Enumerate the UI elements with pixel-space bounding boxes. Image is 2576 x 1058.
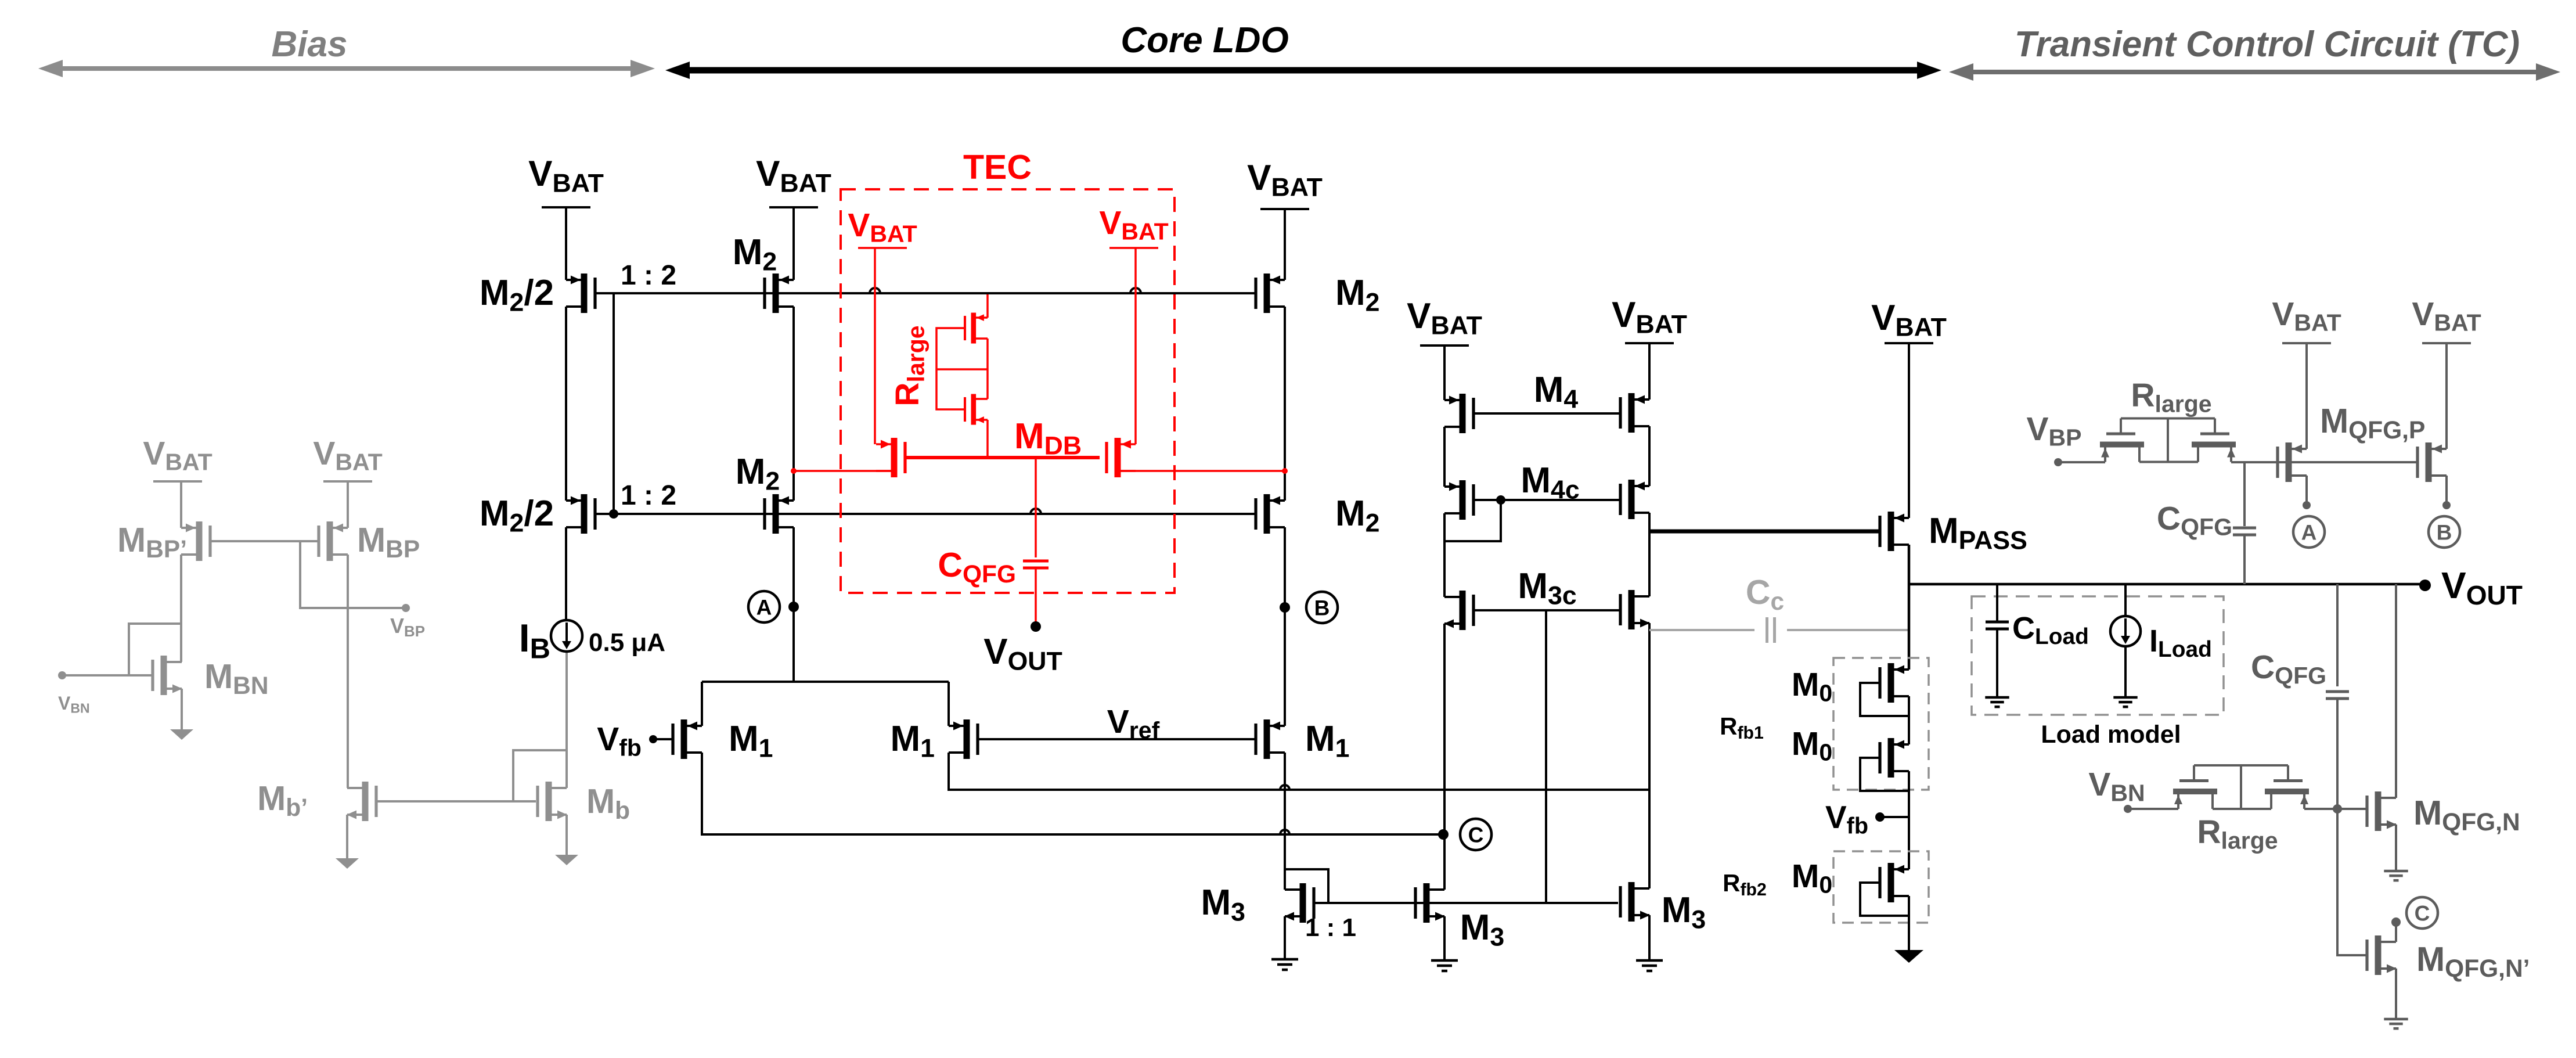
wire M1 tail rail: [702, 681, 949, 683]
pseudo-resistor Rlarge (TEC) upper PMOS: [971, 312, 977, 343]
transistor MBP' (PMOS): [196, 521, 203, 561]
transistor M3 left (NMOS diode): [1300, 883, 1306, 923]
ground (Rfb chain): [1894, 950, 1923, 963]
transistor M1 middle (PMOS): [964, 719, 970, 759]
wire M3 left to ground: [1284, 916, 1286, 958]
wire Rlarge chain: [986, 294, 989, 318]
capacitor CQFG (TEC): [1023, 560, 1049, 563]
wire MBN diode loop: [129, 624, 181, 675]
wire Rlarge to MQFG,N gate: [2304, 808, 2368, 810]
wire MBN source to ground: [181, 689, 183, 729]
junction floating gate N: [2333, 804, 2342, 814]
svg-text:1 : 2: 1 : 2: [621, 480, 676, 511]
ground (MQFG,N): [2384, 870, 2408, 873]
node A circle: [748, 591, 780, 622]
wire MDB left drain to M2 middle: [794, 470, 894, 472]
svg-text:B: B: [1314, 596, 1330, 620]
svg-text:A: A: [756, 595, 772, 619]
wire MDB right drain to M2 right: [1118, 470, 1284, 472]
hop crossings on rails: [870, 288, 880, 293]
svg-text:0.5 μA: 0.5 μA: [589, 628, 665, 657]
wire lower gate rail 1:2: [596, 513, 1256, 515]
node A junction: [788, 602, 799, 612]
svg-text:B: B: [2437, 520, 2452, 544]
Rfb1 dashed box: [1833, 658, 1929, 790]
transistor M2/2 upper (PMOS): [581, 274, 588, 313]
wire M2 right to node B: [1284, 527, 1286, 726]
node C junction: [1438, 829, 1449, 840]
node Vfb: [649, 735, 657, 743]
wire CQFG tap: [1035, 458, 1037, 557]
node B circle (TC): [2429, 516, 2460, 548]
transistor MPASS (PMOS): [1888, 512, 1894, 551]
current source ILoad: [2124, 584, 2127, 616]
wire MBP' gate to MBP gate: [210, 540, 319, 542]
wire Cc: [1649, 629, 1754, 631]
node VOUT terminal: [2419, 580, 2431, 591]
current source IB: [551, 620, 582, 652]
wire Mb' gate to Mb gate: [376, 800, 536, 803]
transistor MBP (PMOS): [327, 521, 333, 561]
transistor MQFG,P left (PMOS): [2286, 442, 2292, 482]
svg-text:C: C: [1468, 823, 1484, 847]
wire VBP tap: [300, 541, 406, 608]
VOUT rail: [1909, 583, 2425, 586]
ground (M3 middle): [1431, 959, 1458, 962]
Rfb2 dashed box: [1833, 851, 1929, 923]
transistor M0 (Rfb1 top): [1888, 663, 1894, 703]
ground (MBN): [170, 729, 193, 740]
wire MQFG,N' drain to C: [2395, 922, 2397, 942]
wire M3 gates riser: [1545, 610, 1547, 903]
transistor Mb' (NMOS): [362, 782, 369, 821]
wire MPASS gate drive: [1649, 530, 1879, 534]
transistor M1 right (PMOS): [1264, 719, 1270, 759]
wire Rfb2 to ground: [1908, 896, 1910, 950]
transistor M2 upper right (PMOS): [1264, 274, 1270, 313]
wire M3 right to ground: [1648, 915, 1651, 959]
capacitor CLoad: [1996, 584, 1998, 622]
transistor M3 middle (NMOS): [1424, 883, 1430, 923]
transistor Mb (NMOS): [546, 782, 552, 821]
wire M4c self-bias tap: [1444, 500, 1501, 541]
wire upper gate rail 1:2: [596, 292, 1256, 294]
wire M3 right drain up: [1648, 790, 1651, 888]
ground (Mb'): [336, 858, 359, 869]
svg-text:1 : 1: 1 : 1: [1305, 913, 1356, 942]
transistor MQFG,N' (NMOS): [2375, 935, 2382, 975]
transistor MQFG,P right (PMOS): [2426, 442, 2432, 482]
wire M1 middle drain rail: [949, 753, 1649, 790]
junction M2/2 gate: [609, 509, 618, 519]
transistor MDB right (PMOS): [1115, 438, 1121, 477]
wire M2/2 drain chain: [565, 307, 567, 501]
transistor MBN (NMOS): [161, 656, 167, 695]
transistor M3c left (NMOS): [1460, 591, 1466, 630]
ground (MQFG,N'): [2384, 1018, 2408, 1021]
pseudo-resistor Rlarge (TEC) lower PMOS: [971, 394, 977, 424]
transistor M2 lower middle (PMOS): [773, 494, 779, 534]
wire M4 right drain: [1648, 426, 1651, 486]
node VOUT (TEC): [1031, 621, 1041, 632]
capacitor Cc: [1766, 617, 1768, 643]
wire M1 right drain down: [1284, 753, 1286, 890]
wire M0 chain: [1908, 696, 1910, 744]
wire MQFG,P left drain to A: [2305, 476, 2308, 505]
wire M2 middle drain chain: [792, 307, 795, 501]
svg-text:Core LDO: Core LDO: [1121, 20, 1288, 60]
wire VBN to Rlarge: [2128, 808, 2178, 810]
wire M3 middle to ground: [1443, 916, 1446, 959]
transistor M0 (Rfb2): [1888, 863, 1894, 902]
wire MBP' drain down: [180, 555, 182, 662]
wire M1 left source: [701, 682, 703, 726]
wire Rlarge gate tie: [936, 328, 965, 409]
transistor M4 left (PMOS): [1460, 394, 1466, 433]
wire M3c right drain down: [1648, 623, 1651, 790]
wire MQFG,N source to ground: [2395, 825, 2397, 870]
wire Mb diode loop: [513, 750, 567, 801]
node VBP input: [2054, 458, 2062, 466]
wire M2/2 diode connection: [613, 293, 615, 514]
node VBP: [402, 604, 410, 612]
wire Mb drain up to IB: [565, 652, 568, 788]
Load model dashed box: [1972, 596, 2224, 715]
transistor M3c right (NMOS): [1629, 590, 1635, 629]
transistor M4c right (PMOS): [1629, 480, 1635, 519]
wire Rlarge to MQFG,P gate: [2231, 461, 2418, 463]
node Vfb (divider): [1875, 812, 1885, 822]
wire M4c left drain: [1443, 513, 1446, 597]
wire MPASS drain to VOUT rail: [1908, 545, 1911, 670]
node VBN input: [2124, 805, 2132, 813]
wire MQFG,P right drain to B: [2445, 476, 2448, 505]
wire VBP to Rlarge: [2058, 461, 2105, 463]
ground (Mb): [555, 855, 578, 865]
node C vertical: [1443, 624, 1446, 890]
ground (M3 right): [1636, 959, 1663, 962]
wire M3c gate rail: [1473, 609, 1620, 611]
junction M4c gate tap: [1496, 495, 1505, 505]
wire floating gate to MQFG,N': [2337, 809, 2368, 955]
wire M2 right drain chain: [1284, 307, 1286, 501]
ground (ILoad): [2113, 696, 2137, 699]
wire M4c gate rail: [1473, 499, 1620, 501]
section arrow Core LDO: [686, 67, 1921, 74]
wire M4 gate rail: [1473, 412, 1620, 415]
transistor M1 left (PMOS): [681, 719, 687, 759]
transistor MQFG,N (NMOS): [2375, 791, 2382, 831]
wire Vref rail: [978, 738, 1256, 740]
wire M1 left drain to node C: [702, 753, 1443, 834]
node B junction: [1280, 602, 1290, 613]
wire Mb source to ground: [565, 815, 568, 855]
node C circle (TC): [2391, 917, 2401, 927]
wire M4c right drain: [1648, 513, 1651, 596]
transistor M2/2 lower (PMOS): [581, 494, 588, 534]
svg-text:C: C: [2415, 901, 2430, 925]
wire M1 right source: [947, 682, 950, 726]
pseudo-resistor Rlarge (VBN): [2173, 789, 2217, 794]
wire M3 left diode loop: [1285, 869, 1328, 903]
transistor MDB left (PMOS): [891, 438, 898, 477]
node C circle: [1460, 819, 1491, 850]
node A circle (TC): [2293, 516, 2325, 548]
capacitor CQFG (N): [2336, 584, 2339, 686]
pseudo-resistor Rlarge (VBP): [2100, 442, 2144, 448]
capacitor CQFG (P): [2243, 462, 2246, 526]
section arrow Transient Control Circuit: [1970, 70, 2539, 74]
wire VBN input: [62, 674, 153, 676]
wire Mb' source to ground: [346, 815, 348, 858]
ground (M3 left): [1271, 958, 1298, 961]
node VBN: [58, 671, 66, 679]
svg-text:TEC: TEC: [963, 148, 1032, 186]
wire MQFG,N drain to VOUT rail: [2395, 584, 2397, 798]
wire M2 middle to node A: [792, 527, 795, 682]
transistor M4 right (PMOS): [1629, 393, 1635, 433]
wire MQFG,N' source to ground: [2395, 969, 2397, 1018]
wire M4 left drain: [1443, 427, 1446, 487]
ground (CLoad): [1985, 696, 2009, 699]
wire MBP drain down to Mb': [347, 555, 349, 788]
transistor M2 lower right (PMOS): [1264, 494, 1270, 534]
transistor M3 right (NMOS): [1629, 882, 1635, 922]
svg-text:Load model: Load model: [2041, 721, 2181, 748]
transistor M2 upper middle (PMOS): [773, 274, 779, 313]
svg-text:1 : 2: 1 : 2: [621, 260, 676, 291]
transistor M0 (Rfb1 bottom): [1888, 738, 1894, 778]
TEC dashed box: [841, 189, 1174, 593]
wire MDB gate rail: [905, 456, 1100, 459]
transistor M4c left (PMOS): [1460, 480, 1466, 520]
svg-text:Transient Control Circuit (TC): Transient Control Circuit (TC): [2015, 24, 2520, 64]
svg-text:A: A: [2301, 520, 2317, 544]
wire M3 gate rail: [1314, 902, 1618, 904]
wire CQFG to VOUT: [1035, 568, 1037, 627]
svg-text:Bias: Bias: [272, 24, 348, 64]
wire M2/2 to current source: [565, 527, 567, 620]
node B circle: [1306, 592, 1338, 623]
section arrow Bias: [59, 66, 634, 71]
